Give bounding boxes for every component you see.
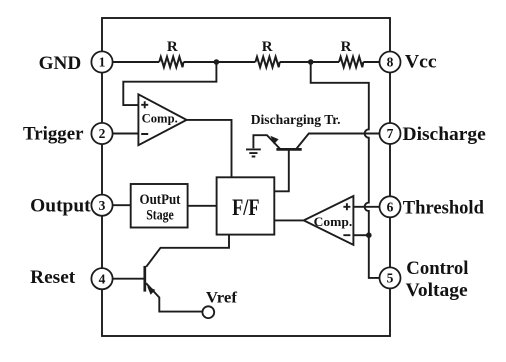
- svg-text:Vref: Vref: [206, 290, 238, 307]
- svg-text:R: R: [167, 39, 178, 55]
- svg-text:Voltage: Voltage: [406, 280, 468, 301]
- svg-text:Threshold: Threshold: [403, 197, 485, 218]
- svg-text:R: R: [341, 39, 352, 55]
- svg-text:Discharge: Discharge: [403, 124, 486, 145]
- svg-text:3: 3: [99, 198, 106, 213]
- svg-text:6: 6: [387, 199, 394, 214]
- svg-text:4: 4: [99, 271, 106, 286]
- svg-text:8: 8: [387, 55, 394, 70]
- svg-text:Stage: Stage: [146, 208, 174, 224]
- svg-text:5: 5: [387, 271, 394, 286]
- svg-text:Comp.: Comp.: [314, 214, 353, 229]
- svg-text:7: 7: [387, 126, 394, 141]
- svg-text:Trigger: Trigger: [23, 124, 84, 145]
- svg-text:2: 2: [99, 126, 106, 141]
- svg-text:Output: Output: [30, 196, 91, 217]
- svg-text:Reset: Reset: [30, 267, 76, 288]
- svg-text:Control: Control: [406, 258, 468, 279]
- svg-text:GND: GND: [39, 53, 82, 74]
- svg-text:Discharging Tr.: Discharging Tr.: [251, 113, 341, 128]
- svg-text:OutPut: OutPut: [140, 192, 181, 208]
- svg-text:Comp.: Comp.: [142, 111, 178, 126]
- svg-text:F/F: F/F: [232, 195, 259, 220]
- svg-text:Vcc: Vcc: [405, 52, 437, 73]
- svg-text:R: R: [262, 39, 273, 55]
- svg-text:1: 1: [99, 55, 106, 70]
